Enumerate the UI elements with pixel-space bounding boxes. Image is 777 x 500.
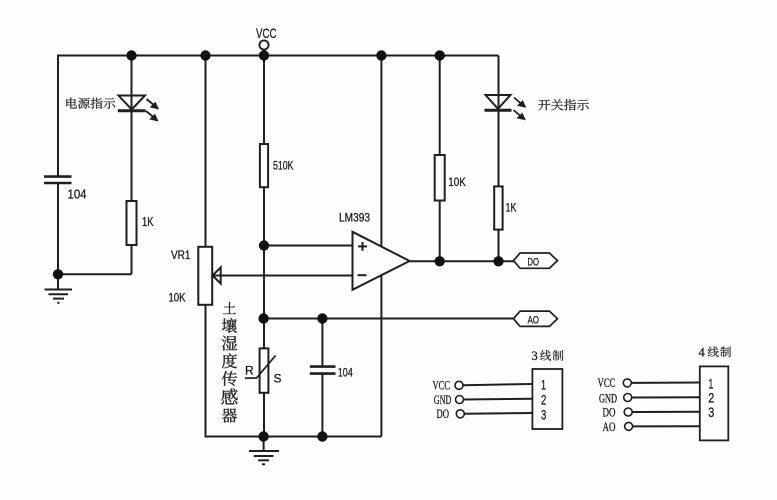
svg-text:DO: DO — [603, 406, 616, 420]
potentiometer VR1 wiper arrow — [213, 267, 221, 283]
wire R4 branch upper — [439, 56, 441, 156]
wire C2 branch upper — [321, 319, 323, 367]
wire R2 bottom — [131, 245, 133, 274]
svg-text:GND: GND — [599, 391, 617, 405]
junction bottom rail / C2 branch — [317, 431, 327, 441]
ground GND2 — [249, 437, 279, 464]
junction output / R5 — [493, 256, 503, 266]
junction top rail / VCC feed — [259, 50, 269, 60]
svg-text:R: R — [245, 364, 254, 378]
J2 terminal circle AO — [625, 422, 633, 430]
wire top VCC rail — [57, 55, 499, 57]
J1 wire GND to pin 2 — [464, 398, 533, 401]
wire comparator output to DO tag — [409, 260, 515, 262]
svg-text:3: 3 — [708, 404, 714, 420]
capacitor C1 104 — [44, 177, 72, 183]
svg-text:VCC: VCC — [433, 379, 451, 393]
wire LED1 branch upper — [131, 56, 133, 202]
potentiometer VR1 body — [198, 247, 212, 305]
junction output / R4 — [435, 256, 445, 266]
LED D1 power indicator — [119, 96, 146, 110]
wire wiper to inverting input — [213, 275, 354, 277]
svg-text:10K: 10K — [169, 293, 186, 305]
junction top rail / feedback column — [376, 50, 386, 60]
op-amp plus sign — [358, 242, 367, 251]
svg-text:1K: 1K — [142, 215, 154, 229]
svg-text:VR1: VR1 — [171, 250, 191, 262]
wire C2 branch lower — [321, 374, 323, 437]
label power-indicator 电源指示 — [66, 98, 115, 109]
wire VR1 branch upper — [205, 56, 207, 248]
wire non-inverting input — [264, 245, 354, 247]
wire R5 bottom to output — [498, 230, 500, 262]
svg-text:VCC: VCC — [598, 376, 616, 390]
junction non-inverting input node — [259, 240, 269, 250]
svg-text:10K: 10K — [448, 175, 466, 189]
svg-text:1K: 1K — [506, 201, 517, 215]
J1 terminal circle DO — [456, 410, 464, 418]
VCC terminal circle — [259, 40, 268, 49]
capacitor C2 104 — [310, 367, 336, 374]
wire LED2 branch upper — [498, 56, 500, 187]
connector J1 3-wire box — [532, 369, 562, 429]
svg-text:3: 3 — [541, 407, 546, 423]
J2 wire VCC to pin 1 — [631, 382, 700, 384]
junction AO net / C2 branch — [317, 313, 327, 323]
op-amp minus sign — [358, 274, 367, 276]
net tag AO — [514, 311, 558, 326]
sensor RS body — [260, 348, 269, 392]
svg-text:VCC: VCC — [256, 25, 277, 41]
resistor R4 10K — [435, 155, 445, 201]
J1 terminal circle GND — [456, 396, 464, 404]
label soil moisture sensor 土壤湿度传感器 (vertical) — [221, 302, 237, 423]
junction AO net / sensor column — [258, 313, 268, 323]
junction top rail / R4 branch — [435, 50, 445, 60]
wire bottom rail — [206, 436, 382, 438]
J1 wire VCC to pin 1 — [463, 384, 532, 385]
LED D1 arrows — [146, 99, 158, 120]
svg-text:DO: DO — [437, 407, 450, 421]
svg-text:4: 4 — [699, 346, 706, 360]
svg-text:3: 3 — [532, 349, 538, 363]
svg-text:1: 1 — [541, 377, 546, 393]
wire R3 bottom to sensor top — [263, 187, 265, 349]
svg-text:AO: AO — [528, 315, 540, 327]
LED D2 arrows — [514, 98, 525, 120]
J1 wire DO to pin 3 — [464, 412, 532, 415]
connector J2 4-wire box — [700, 366, 729, 440]
svg-text:104: 104 — [68, 188, 87, 202]
wire VCC terminal to R3 — [263, 49, 265, 144]
resistor R2 1K — [127, 201, 137, 245]
svg-text:510K: 510K — [273, 159, 294, 173]
net tag DO — [514, 253, 558, 268]
svg-text:S: S — [274, 372, 282, 386]
wire left rail lower (C1 to ground node) — [57, 183, 59, 275]
wire left rail upper (to C1) — [57, 55, 59, 177]
svg-text:LM393: LM393 — [339, 211, 370, 225]
resistor R5 1K — [494, 186, 502, 229]
wire VR1 bottom to bottom rail — [205, 305, 207, 438]
J2 terminal circle DO — [624, 408, 632, 416]
svg-text:DO: DO — [528, 256, 540, 268]
svg-text:104: 104 — [338, 366, 353, 380]
junction bottom rail / sensor ground node — [258, 431, 268, 441]
wire R4 bottom to output — [439, 201, 441, 262]
svg-text:2: 2 — [541, 392, 546, 408]
ground GND1 — [45, 274, 73, 303]
op-amp U1 LM393 — [353, 232, 410, 290]
junction left ground node — [53, 269, 63, 279]
wire ground-node to R2 bottom — [58, 273, 132, 275]
J2 wire AO to pin 4 — [633, 425, 700, 427]
svg-text:GND: GND — [434, 393, 452, 407]
resistor R3 510K — [260, 144, 268, 187]
J1 terminal circle VCC — [455, 381, 463, 389]
J2 terminal circle VCC — [623, 379, 631, 387]
J2 wire GND to pin 2 — [632, 396, 700, 398]
wire sensor bottom to ground node — [263, 393, 265, 437]
J2 wire DO to pin 3 — [632, 411, 700, 413]
wire AO net — [264, 318, 515, 320]
LED D2 switch indicator — [486, 95, 511, 109]
junction top rail / VR1 branch — [200, 50, 210, 60]
sensor RS diagonal — [245, 355, 276, 378]
label switch-indicator 开关指示 — [538, 99, 588, 110]
wire feedback column x=381 — [380, 56, 382, 437]
J2 terminal circle GND — [624, 394, 632, 402]
junction top rail / LED1 branch — [126, 50, 136, 60]
svg-text:AO: AO — [603, 420, 616, 434]
